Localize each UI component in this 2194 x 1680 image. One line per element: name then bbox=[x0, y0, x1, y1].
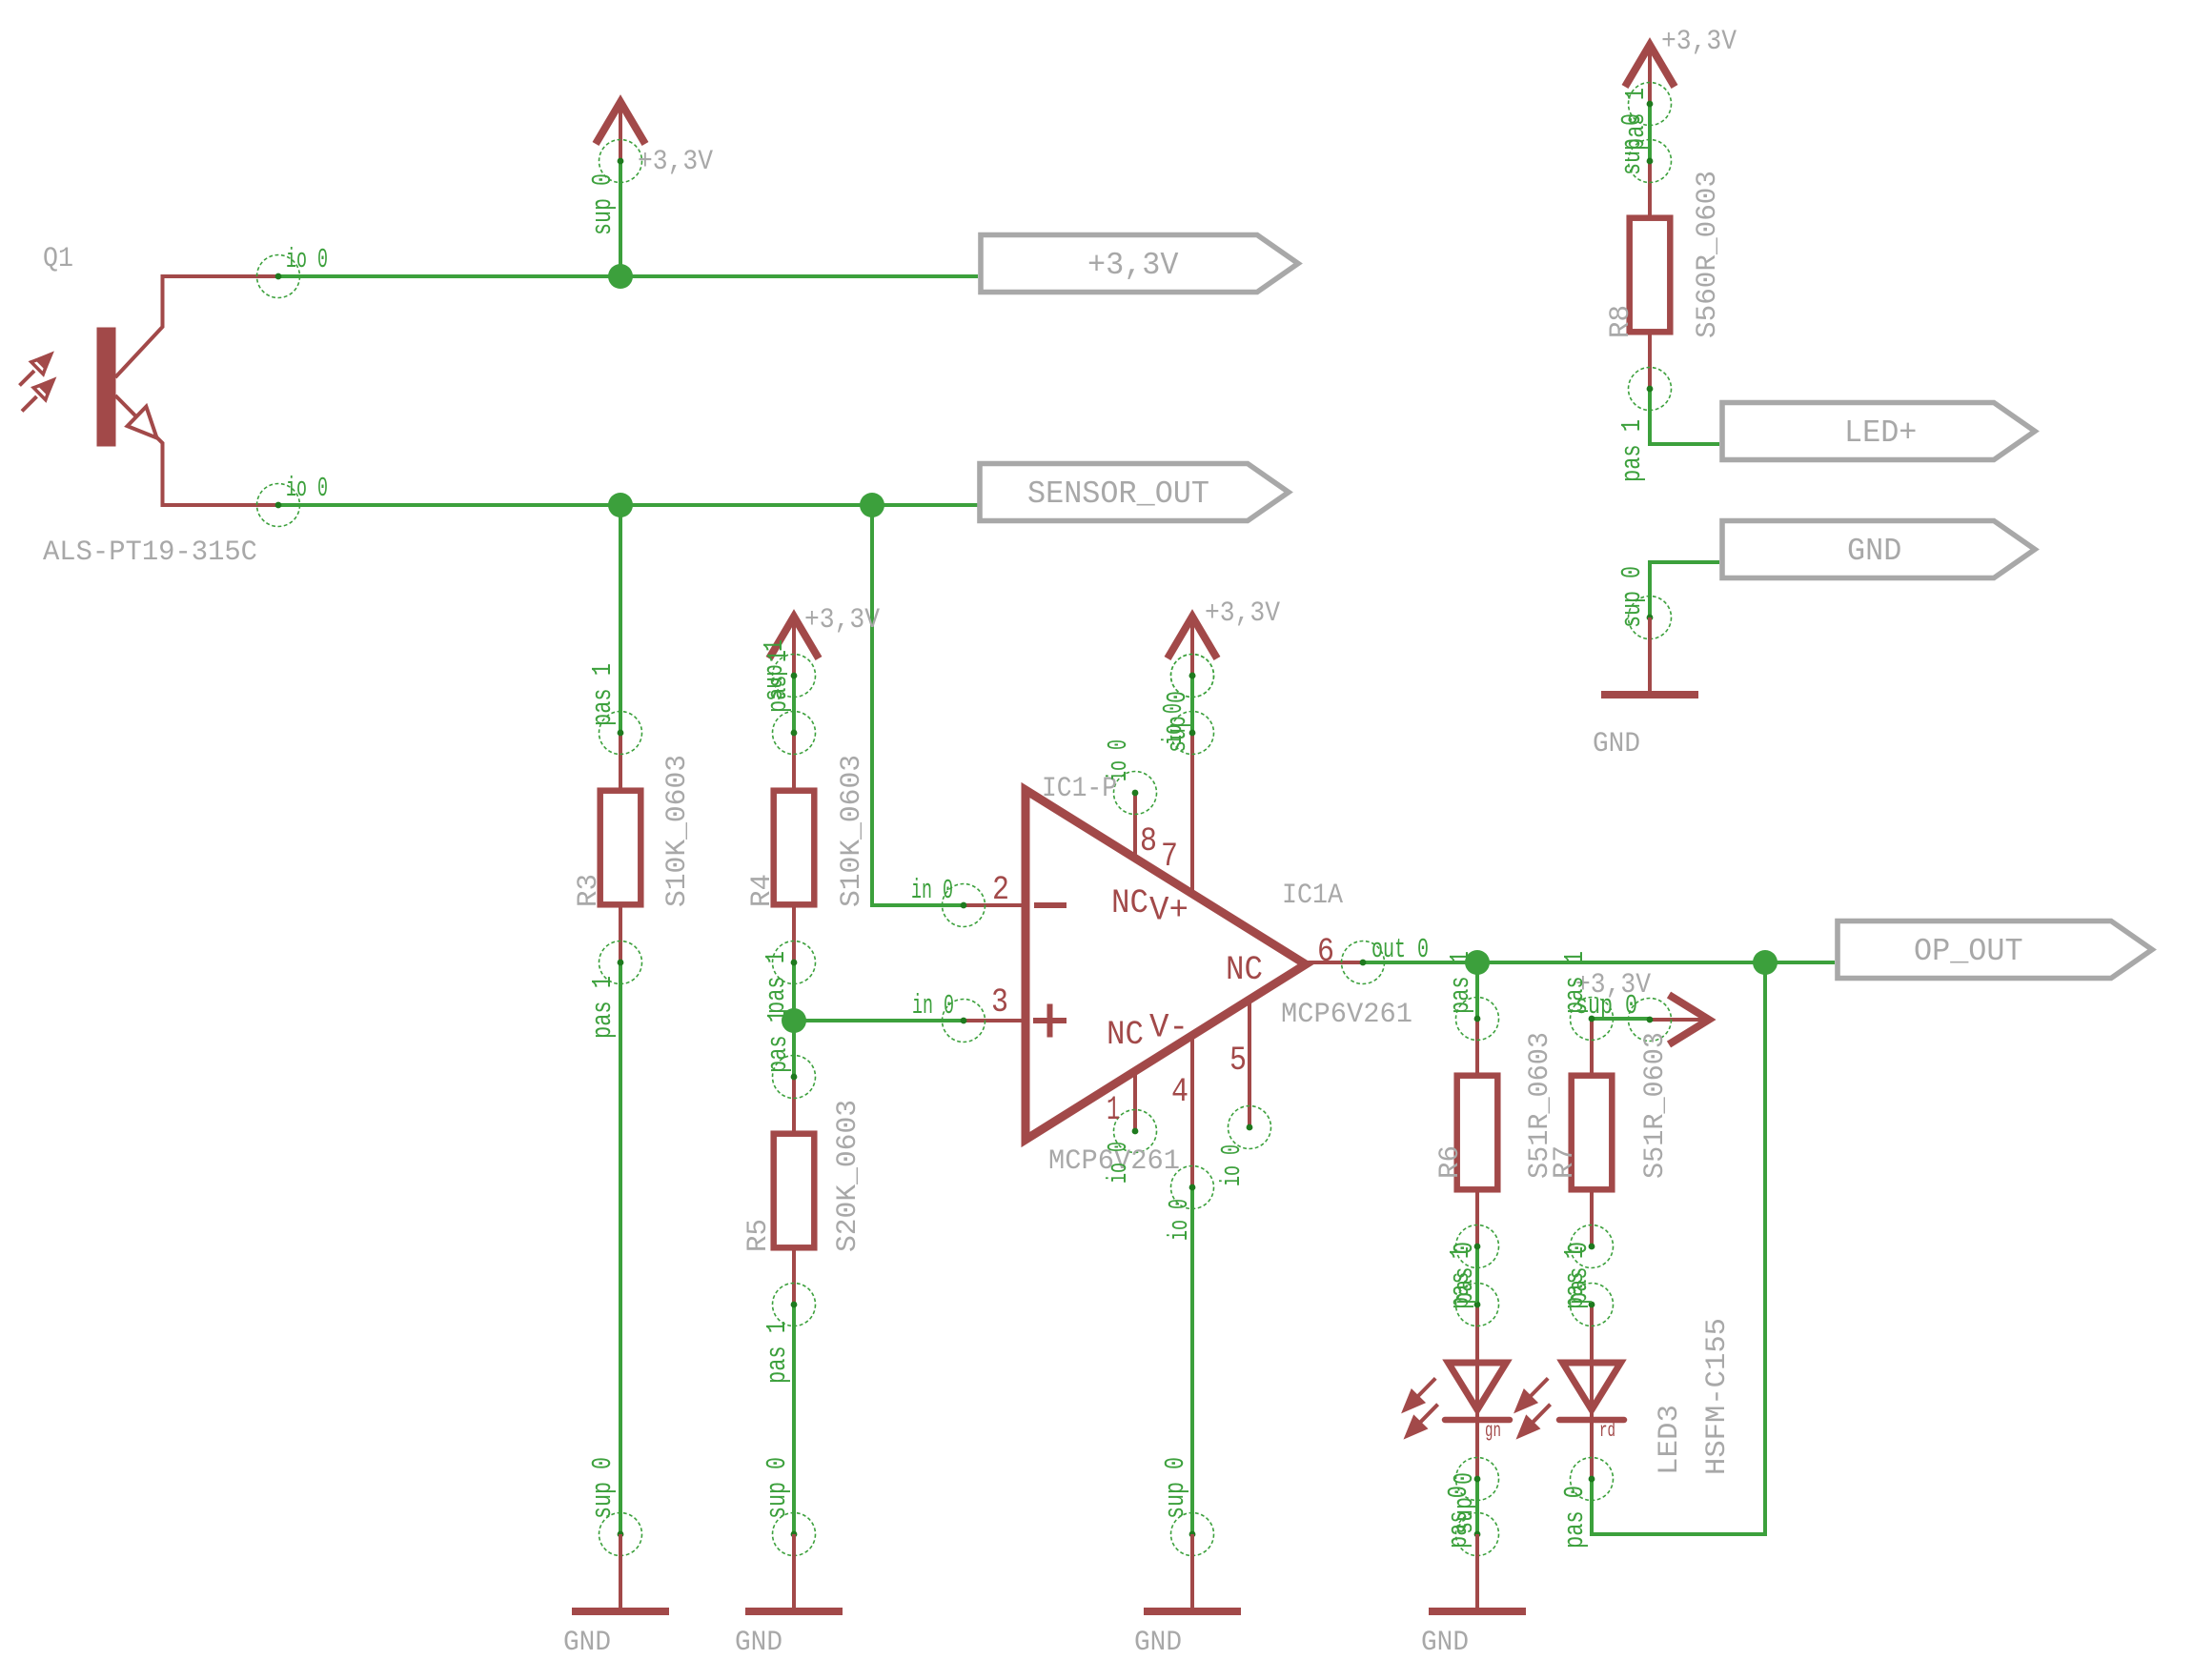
svg-text:3: 3 bbox=[991, 983, 1008, 1022]
svg-text:R3: R3 bbox=[573, 874, 605, 907]
svg-text:R6: R6 bbox=[1434, 1145, 1467, 1179]
svg-text:R5: R5 bbox=[742, 1219, 775, 1252]
svg-text:in 0: in 0 bbox=[911, 875, 953, 906]
svg-text:io 0: io 0 bbox=[1216, 1144, 1248, 1186]
svg-text:pas 1: pas 1 bbox=[587, 663, 619, 726]
svg-text:out 0: out 0 bbox=[1371, 934, 1429, 965]
svg-text:pas 1: pas 1 bbox=[762, 1321, 793, 1384]
svg-text:8: 8 bbox=[1140, 822, 1157, 860]
svg-text:GND: GND bbox=[1593, 728, 1640, 760]
svg-text:V+: V+ bbox=[1149, 892, 1188, 930]
svg-text:GND: GND bbox=[563, 1627, 611, 1659]
svg-text:S51R_0603: S51R_0603 bbox=[1639, 1032, 1672, 1179]
svg-text:GND: GND bbox=[1421, 1627, 1469, 1659]
svg-text:io 0: io 0 bbox=[286, 244, 328, 275]
svg-text:+3,3V: +3,3V bbox=[804, 604, 880, 637]
svg-text:rd: rd bbox=[1599, 1421, 1615, 1443]
svg-text:6: 6 bbox=[1317, 933, 1334, 971]
svg-text:1: 1 bbox=[1107, 1091, 1120, 1129]
svg-text:ALS-PT19-315C: ALS-PT19-315C bbox=[43, 536, 257, 569]
svg-text:io 0: io 0 bbox=[1103, 1142, 1134, 1184]
svg-text:R4: R4 bbox=[746, 874, 779, 907]
svg-text:io 0: io 0 bbox=[1103, 739, 1134, 781]
svg-text:MCP6V261: MCP6V261 bbox=[1281, 999, 1412, 1031]
svg-text:V-: V- bbox=[1149, 1009, 1188, 1047]
svg-text:+3,3V: +3,3V bbox=[1661, 26, 1737, 58]
svg-text:sup 0: sup 0 bbox=[1160, 1457, 1191, 1519]
svg-text:+3,3V: +3,3V bbox=[1205, 597, 1280, 630]
svg-text:S10K_0603: S10K_0603 bbox=[661, 755, 694, 907]
svg-text:NC: NC bbox=[1107, 1016, 1144, 1054]
svg-text:S10K_0603: S10K_0603 bbox=[836, 755, 868, 907]
svg-text:io 0: io 0 bbox=[1164, 1199, 1195, 1241]
svg-text:NC: NC bbox=[1111, 884, 1148, 922]
svg-text:HSFM-C155: HSFM-C155 bbox=[1701, 1318, 1734, 1475]
svg-text:pas 1: pas 1 bbox=[761, 951, 792, 1014]
svg-text:sup 0: sup 0 bbox=[762, 1457, 793, 1519]
svg-text:pas 1: pas 1 bbox=[762, 1010, 794, 1073]
svg-text:sup 0: sup 0 bbox=[587, 1457, 619, 1519]
svg-text:+3,3V: +3,3V bbox=[638, 146, 713, 178]
svg-text:pas 1: pas 1 bbox=[1559, 951, 1591, 1014]
svg-text:sup 0: sup 0 bbox=[1616, 566, 1648, 628]
svg-text:GND: GND bbox=[1134, 1627, 1182, 1659]
svg-text:LED3: LED3 bbox=[1654, 1405, 1686, 1475]
svg-text:pas 0: pas 0 bbox=[1559, 1486, 1591, 1548]
svg-text:in 0: in 0 bbox=[912, 990, 954, 1022]
svg-text:io 0: io 0 bbox=[286, 473, 328, 504]
svg-text:gn: gn bbox=[1485, 1421, 1501, 1443]
svg-text:OP_OUT: OP_OUT bbox=[1914, 934, 2023, 969]
svg-text:pas 0: pas 0 bbox=[1449, 1242, 1480, 1305]
svg-text:LED+: LED+ bbox=[1844, 415, 1917, 451]
svg-text:S20K_0603: S20K_0603 bbox=[832, 1100, 864, 1252]
svg-text:4: 4 bbox=[1171, 1073, 1188, 1111]
svg-text:pas 0: pas 0 bbox=[1563, 1242, 1595, 1305]
svg-text:SENSOR_OUT: SENSOR_OUT bbox=[1027, 476, 1209, 512]
svg-text:Q1: Q1 bbox=[43, 243, 73, 275]
svg-text:pas 1: pas 1 bbox=[1620, 88, 1652, 151]
svg-text:pas 1: pas 1 bbox=[1616, 419, 1648, 482]
svg-text:2: 2 bbox=[992, 871, 1009, 909]
svg-text:pas 1: pas 1 bbox=[587, 976, 619, 1039]
svg-text:pas 1: pas 1 bbox=[1445, 951, 1476, 1014]
svg-text:5: 5 bbox=[1229, 1042, 1247, 1080]
svg-text:GND: GND bbox=[735, 1627, 782, 1659]
svg-text:IC1A: IC1A bbox=[1282, 880, 1343, 912]
svg-text:GND: GND bbox=[1847, 534, 1901, 569]
svg-text:sup 0: sup 0 bbox=[587, 173, 619, 235]
svg-text:pas 1: pas 1 bbox=[762, 650, 794, 713]
svg-text:7: 7 bbox=[1161, 838, 1178, 876]
svg-text:sup 0: sup 0 bbox=[1449, 1472, 1480, 1534]
svg-text:NC: NC bbox=[1226, 951, 1263, 989]
svg-text:R7: R7 bbox=[1549, 1145, 1581, 1179]
svg-text:io 0: io 0 bbox=[1158, 703, 1189, 745]
svg-text:R8: R8 bbox=[1605, 305, 1637, 338]
svg-text:+3,3V: +3,3V bbox=[1087, 248, 1179, 283]
svg-text:S560R_0603: S560R_0603 bbox=[1692, 171, 1724, 338]
